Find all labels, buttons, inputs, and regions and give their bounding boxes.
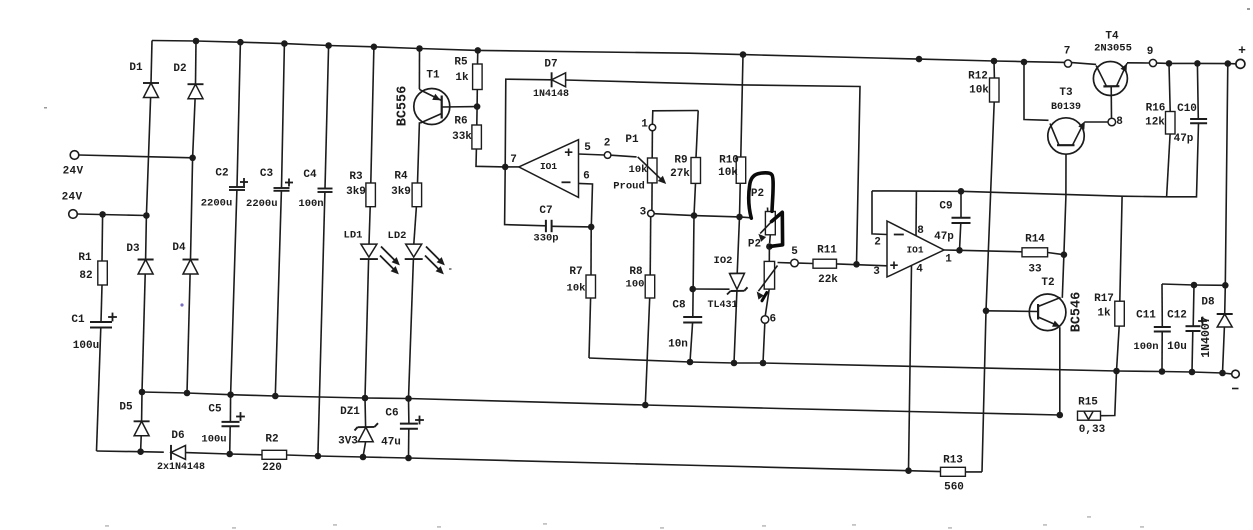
svg-text:IO1: IO1 — [906, 245, 923, 256]
svg-text:R1: R1 — [78, 252, 92, 264]
svg-text:2x1N4148: 2x1N4148 — [157, 462, 205, 473]
svg-text:8: 8 — [917, 225, 924, 237]
svg-text:C5: C5 — [208, 404, 222, 416]
svg-text:P2: P2 — [751, 188, 764, 200]
svg-text:47u: 47u — [381, 437, 401, 449]
svg-text:T4: T4 — [1105, 31, 1119, 43]
svg-text:R9: R9 — [674, 155, 687, 167]
svg-text:7: 7 — [510, 154, 517, 166]
svg-text:R6: R6 — [454, 116, 467, 128]
svg-text:P1: P1 — [625, 134, 639, 146]
svg-text:IO1: IO1 — [540, 161, 557, 172]
svg-text:+: + — [889, 258, 898, 275]
svg-text:2: 2 — [874, 237, 881, 249]
svg-text:2: 2 — [604, 138, 611, 150]
svg-text:6: 6 — [583, 171, 590, 183]
svg-text:D6: D6 — [171, 430, 184, 442]
svg-text:C12: C12 — [1167, 310, 1187, 322]
svg-text:8: 8 — [1116, 116, 1123, 128]
svg-text:1: 1 — [945, 254, 952, 266]
svg-text:D1: D1 — [129, 62, 143, 74]
svg-text:100n: 100n — [298, 198, 323, 210]
svg-text:LD1: LD1 — [344, 230, 363, 242]
svg-text:BC546: BC546 — [1070, 292, 1085, 333]
svg-text:D4: D4 — [172, 242, 186, 254]
svg-text:7: 7 — [1064, 46, 1071, 58]
svg-text:10k: 10k — [567, 283, 586, 295]
svg-text:47p: 47p — [934, 231, 954, 243]
svg-text:T3: T3 — [1059, 87, 1073, 99]
svg-text:D8: D8 — [1201, 297, 1215, 309]
svg-text:2200u: 2200u — [201, 198, 233, 210]
svg-text:C7: C7 — [539, 205, 552, 217]
svg-text:6: 6 — [769, 314, 776, 326]
svg-text:2N3055: 2N3055 — [1094, 43, 1132, 55]
svg-text:R5: R5 — [454, 57, 468, 69]
svg-text:+: + — [564, 145, 573, 162]
svg-text:T1: T1 — [426, 70, 440, 82]
svg-text:C11: C11 — [1136, 310, 1156, 322]
svg-text:24V: 24V — [62, 192, 83, 204]
svg-text:D2: D2 — [173, 63, 186, 75]
svg-text:D5: D5 — [119, 402, 133, 414]
svg-text:C3: C3 — [260, 168, 274, 180]
svg-text:33k: 33k — [452, 131, 472, 143]
svg-text:C1: C1 — [71, 314, 85, 326]
svg-text:R15: R15 — [1078, 397, 1098, 409]
svg-text:R14: R14 — [1025, 234, 1045, 246]
svg-text:R4: R4 — [394, 171, 408, 183]
svg-text:R13: R13 — [943, 455, 963, 467]
svg-text:P2: P2 — [748, 239, 761, 251]
svg-text:0,33: 0,33 — [1079, 424, 1106, 436]
svg-text:C8: C8 — [672, 300, 686, 312]
svg-text:100u: 100u — [201, 434, 226, 446]
svg-text:22k: 22k — [818, 274, 838, 286]
svg-text:10k: 10k — [629, 164, 648, 176]
svg-text:3k9: 3k9 — [346, 186, 366, 198]
svg-text:C4: C4 — [303, 169, 317, 181]
svg-text:1: 1 — [641, 119, 648, 131]
svg-text:220: 220 — [262, 462, 282, 474]
svg-text:24V: 24V — [63, 166, 84, 178]
svg-text:T2: T2 — [1041, 277, 1054, 289]
svg-text:10u: 10u — [1167, 341, 1187, 353]
svg-text:R2: R2 — [265, 434, 278, 446]
svg-text:D3: D3 — [126, 243, 140, 255]
svg-text:BC556: BC556 — [396, 86, 411, 127]
svg-text:10k: 10k — [718, 167, 738, 179]
svg-text:10k: 10k — [969, 85, 989, 97]
svg-text:3: 3 — [640, 207, 647, 219]
svg-text:DZ1: DZ1 — [340, 406, 360, 418]
svg-text:R8: R8 — [629, 266, 643, 278]
svg-text:10n: 10n — [668, 339, 688, 351]
svg-text:IO2: IO2 — [714, 255, 733, 267]
svg-text:82: 82 — [79, 270, 92, 282]
svg-text:R17: R17 — [1094, 293, 1114, 305]
svg-text:100: 100 — [626, 279, 645, 291]
svg-text:330p: 330p — [533, 233, 558, 245]
svg-text:4: 4 — [916, 264, 923, 276]
svg-text:1k: 1k — [455, 72, 469, 84]
svg-text:33: 33 — [1028, 264, 1042, 276]
svg-text:100u: 100u — [73, 340, 99, 352]
svg-text:1N4007: 1N4007 — [1200, 316, 1213, 358]
svg-text:3: 3 — [873, 266, 880, 278]
svg-text:560: 560 — [944, 482, 964, 494]
svg-text:LD2: LD2 — [388, 230, 407, 242]
svg-text:1N4148: 1N4148 — [533, 89, 569, 100]
svg-text:C2: C2 — [215, 168, 228, 180]
svg-text:TL431: TL431 — [707, 300, 737, 311]
svg-text:5: 5 — [584, 142, 591, 154]
svg-text:+: + — [1238, 43, 1246, 58]
svg-text:B0139: B0139 — [1051, 102, 1081, 113]
svg-text:12k: 12k — [1145, 117, 1165, 129]
svg-text:R7: R7 — [569, 266, 582, 278]
svg-text:R3: R3 — [349, 171, 363, 183]
svg-text:5: 5 — [791, 246, 798, 258]
svg-text:C10: C10 — [1177, 103, 1197, 115]
svg-text:D7: D7 — [544, 59, 557, 71]
svg-text:R10: R10 — [719, 155, 739, 167]
svg-text:3V3: 3V3 — [338, 436, 358, 448]
svg-text:Proud: Proud — [613, 181, 645, 193]
svg-text:2200u: 2200u — [246, 198, 278, 210]
svg-text:R16: R16 — [1146, 103, 1166, 115]
svg-text:C9: C9 — [939, 201, 952, 213]
svg-text:R11: R11 — [817, 245, 837, 257]
svg-text:R12: R12 — [968, 71, 988, 83]
svg-text:9: 9 — [1147, 46, 1154, 58]
svg-text:27k: 27k — [670, 168, 690, 180]
svg-text:47p: 47p — [1174, 133, 1194, 145]
svg-text:100n: 100n — [1133, 341, 1158, 353]
svg-text:C6: C6 — [385, 408, 398, 420]
svg-text:3k9: 3k9 — [391, 186, 411, 198]
svg-text:1k: 1k — [1097, 308, 1111, 320]
